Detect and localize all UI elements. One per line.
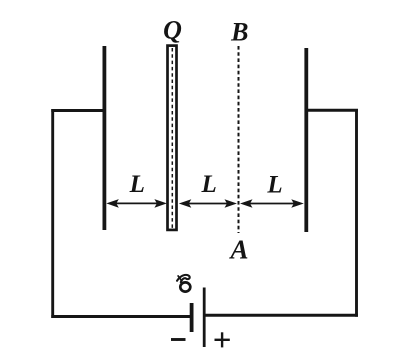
dimension arrow L2 (between Q and AB line) — [179, 199, 237, 208]
wire bottom-left (to battery negative) — [51, 315, 190, 318]
charged sheet Q (center slab) — [168, 46, 177, 230]
svg-text:L: L — [129, 171, 145, 198]
EMF symbol script-E of battery — [177, 275, 190, 292]
capacitor plate P1 (left) — [103, 46, 107, 230]
svg-text:B: B — [230, 18, 248, 47]
battery negative terminal (short bar) — [190, 303, 194, 332]
wire top-left (plate P1 to left branch) — [51, 109, 104, 112]
svg-text:L: L — [266, 172, 282, 199]
capacitor plate P2 (right) — [304, 48, 308, 232]
battery minus sign — [171, 338, 186, 341]
wire top-right (plate P2 to right branch) — [306, 109, 358, 112]
dashed line from B to A — [238, 46, 240, 233]
wire right vertical — [355, 109, 358, 317]
wire left vertical — [51, 109, 54, 318]
svg-text:L: L — [201, 171, 217, 198]
battery positive terminal (long bar) — [203, 288, 206, 348]
dimension arrow L3 (between AB line and P2) — [240, 199, 304, 208]
svg-text:A: A — [228, 235, 248, 265]
battery plus sign — [215, 332, 230, 347]
dimension arrow L1 (between P1 and Q) — [106, 199, 167, 208]
svg-text:Q: Q — [163, 16, 182, 45]
wire bottom-right (battery positive to right branch) — [204, 314, 358, 317]
